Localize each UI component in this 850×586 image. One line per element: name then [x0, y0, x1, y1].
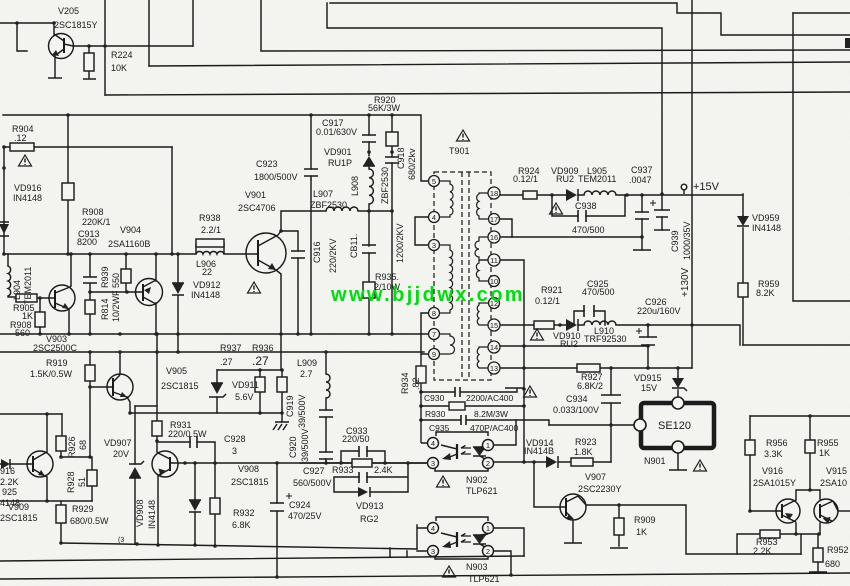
resistor R959 [738, 283, 748, 297]
wire branch C930 [421, 388, 517, 392]
svg-text:R926: R926 [67, 436, 77, 458]
wire pin15 +130V chain y325 [499, 325, 740, 345]
svg-text:IN4148: IN4148 [752, 223, 781, 233]
svg-text:R956: R956 [766, 438, 788, 448]
svg-text:470/500: 470/500 [582, 287, 615, 297]
IC SE120 box [641, 403, 714, 448]
svg-text:470P/AC400: 470P/AC400 [470, 423, 518, 433]
wire V915 collector right [838, 510, 850, 512]
svg-text:2SC1815: 2SC1815 [161, 381, 199, 391]
N903 pin 4 [428, 523, 439, 534]
svg-text:(3: (3 [118, 537, 124, 544]
capacitor C937 ground stub [633, 249, 651, 251]
svg-text:C928: C928 [224, 434, 246, 444]
wire V916 emitter down [795, 523, 797, 534]
svg-text:2SC4706: 2SC4706 [238, 203, 276, 213]
wire x178 VD912 chain [177, 254, 179, 352]
pin 18 [488, 187, 500, 199]
svg-text:2SC2500C: 2SC2500C [33, 343, 78, 353]
wire VD907 chain x135 [134, 406, 136, 544]
svg-text:2: 2 [486, 459, 490, 468]
svg-text:1800/500V: 1800/500V [254, 172, 298, 182]
wire x692 lower part [691, 325, 693, 368]
capacitor C927 [359, 472, 367, 483]
diode VD909 [566, 189, 578, 201]
wire C927/VD913 bypass [334, 463, 408, 492]
wire x392 R920/C918 chain [391, 115, 393, 334]
svg-text:10/2WF: 10/2WF [111, 290, 121, 322]
resistor R921 [534, 321, 554, 329]
svg-text:14: 14 [490, 343, 498, 352]
svg-text:2SC1815: 2SC1815 [0, 513, 38, 523]
capacitor C934 [601, 395, 621, 403]
wire y345 to right edge [743, 344, 850, 346]
svg-text:2.2K: 2.2K [0, 477, 19, 487]
wire base bracket V916 V915 [796, 490, 820, 500]
svg-text:C919: C919 [285, 395, 295, 417]
svg-text:CB11.: CB11. [349, 234, 359, 258]
pin 4 [429, 212, 440, 223]
svg-text:16: 16 [490, 233, 498, 242]
resistor R906 [35, 312, 45, 327]
svg-text:20V: 20V [113, 449, 129, 459]
svg-text:R923: R923 [575, 437, 597, 447]
svg-text:R814: R814 [100, 298, 110, 320]
svg-text:4: 4 [431, 524, 435, 533]
diode VD908 [189, 500, 201, 512]
primary winding middle [439, 245, 453, 313]
wire vertical x105 from top [104, 0, 106, 95]
svg-text:SE120: SE120 [658, 420, 691, 432]
svg-text:L907: L907 [313, 189, 333, 199]
resistor R934 [416, 366, 426, 383]
pin 16 [488, 231, 500, 243]
svg-text:1000/35V: 1000/35V [682, 221, 692, 260]
wire V905 emitter [127, 397, 130, 413]
wire V915 emitter down [819, 523, 821, 534]
diode VD925 [0, 459, 10, 469]
warning triangle N902 [437, 476, 450, 487]
ground R909 [610, 547, 628, 549]
wire y425 into SE120 pin2 [549, 424, 634, 426]
svg-text:+15V: +15V [693, 181, 720, 193]
wire R927 line y368 [524, 367, 692, 369]
N902 pin 2 [483, 458, 494, 469]
wire rail y558 [0, 556, 524, 561]
capacitor C923 [304, 169, 318, 176]
wire SE120 pin3 ground [677, 453, 679, 469]
svg-text:C930: C930 [424, 393, 445, 403]
resistor R939 [121, 269, 131, 283]
svg-text:.0047: .0047 [629, 175, 652, 185]
wire jog x390 [389, 548, 391, 557]
svg-text:22: 22 [202, 267, 212, 277]
N902 top connector wire [436, 432, 488, 436]
transistor V205 [48, 34, 74, 79]
ground R952 [809, 571, 827, 573]
svg-text:6.8K/2: 6.8K/2 [577, 381, 603, 391]
SE120 pin 3 [672, 441, 684, 453]
transistor V908 [152, 451, 178, 477]
wire pin18 output chain y195 [499, 194, 743, 196]
svg-text:VD915: VD915 [634, 373, 662, 383]
wire x326 L909/C919/C920 chain [325, 352, 327, 463]
capacitor C919 [319, 410, 333, 417]
capacitor C916 [291, 251, 305, 258]
resistor R956 [745, 440, 755, 455]
warning triangle R924 [550, 203, 563, 214]
svg-text:2SC1815Y: 2SC1815Y [54, 20, 98, 30]
wire stub left [17, 23, 27, 51]
svg-text:ZBF2530: ZBF2530 [380, 167, 390, 204]
svg-text:2200/AC400: 2200/AC400 [466, 393, 514, 403]
svg-text:925: 925 [2, 487, 17, 497]
svg-text:680/0.5W: 680/0.5W [70, 516, 109, 526]
svg-text:C937: C937 [631, 165, 653, 175]
wire C928 line y442 [157, 441, 215, 443]
SE120 pin 1 [672, 397, 684, 409]
N903 LED [473, 534, 488, 549]
svg-text:VD959: VD959 [752, 213, 780, 223]
wire main bus y115 to transformer pin5 [3, 115, 429, 181]
resistor R814 [85, 300, 95, 314]
resistor R938 parallel loop [196, 239, 224, 254]
wire V905 base [90, 386, 107, 388]
transistor V904 [136, 279, 163, 306]
wire C925 bypass loop [574, 311, 605, 325]
svg-text:560/500V: 560/500V [293, 478, 332, 488]
wire R923/VD914 line y462 [494, 461, 611, 463]
svg-text:1.8K: 1.8K [574, 447, 593, 457]
wire branch R930 [421, 405, 524, 407]
wire V909 emitter [46, 477, 48, 501]
wire x126 R939 chain [125, 254, 127, 292]
pin 11 [488, 254, 500, 266]
svg-text:3: 3 [431, 459, 435, 468]
wire C923 gap [310, 176, 312, 179]
svg-text:VD907: VD907 [104, 438, 132, 448]
wire R953 line y534 [737, 534, 818, 554]
transistor V916 [776, 499, 800, 523]
svg-text:51: 51 [77, 477, 87, 487]
wire rail y578 [0, 573, 850, 579]
N902 bottom connector wire [435, 468, 488, 471]
wire vertical x692 full [691, 0, 693, 325]
svg-text:R909: R909 [634, 515, 656, 525]
warning triangle R904 [19, 155, 32, 166]
primary winding upper [439, 181, 453, 217]
svg-text:C920: C920 [288, 436, 298, 458]
svg-text:IN4148: IN4148 [147, 500, 157, 529]
transistor V915 [814, 499, 838, 525]
svg-text:V909: V909 [8, 502, 29, 512]
warning triangle VD910 [531, 329, 544, 340]
N903 phototransistor [456, 532, 458, 547]
svg-text:5: 5 [432, 177, 436, 186]
wire x90 C913/R814 chain [89, 254, 91, 334]
wire V907 base drop x534 [534, 462, 560, 507]
resistor R924 [523, 191, 537, 199]
svg-text:TEM2011: TEM2011 [23, 267, 33, 305]
svg-text:220K/1: 220K/1 [82, 217, 111, 227]
svg-text:C935: C935 [429, 423, 450, 433]
resistor R952 [813, 548, 823, 562]
svg-text:15: 15 [490, 321, 498, 330]
wire N903 pin4/pin3 feed x417 [407, 525, 428, 557]
wire V205 collector to long rail y46 [73, 45, 193, 47]
wire pin14 y346 [499, 345, 648, 347]
ground hot chassis [273, 422, 289, 430]
svg-text:R939: R939 [100, 266, 110, 288]
svg-text:2SC1815: 2SC1815 [231, 477, 269, 487]
resistor R931 [152, 421, 162, 436]
ground SE120 pin3 [669, 469, 687, 471]
warning triangle C930 rows [524, 386, 537, 397]
wire x327 vertical and y28 line [327, 3, 662, 194]
pin 12 [489, 298, 500, 309]
resistor R908 [62, 183, 74, 200]
svg-text:560: 560 [15, 328, 30, 338]
N902 phototransistor [456, 444, 458, 459]
wire vertical x150 down from rail y46 [148, 0, 150, 66]
pin 10 [489, 276, 500, 287]
N902 pin 1 [483, 440, 494, 451]
wire V904 base [90, 291, 136, 293]
svg-text:2SA1160B: 2SA1160B [108, 239, 150, 249]
inductor L904 [8, 266, 11, 296]
svg-text:R934: R934 [400, 372, 410, 394]
capacitor C933 [359, 446, 367, 457]
N902 pin 3 [428, 458, 439, 469]
capacitor C917 [362, 135, 376, 142]
svg-text:9: 9 [432, 350, 436, 359]
pin 3 [429, 240, 440, 251]
resistor R930 [449, 402, 465, 410]
resistor R927 [577, 364, 600, 372]
svg-text:2.4K: 2.4K [374, 465, 393, 475]
capacitor C925 [584, 305, 594, 317]
wire R929 branch x61 [60, 501, 62, 543]
wire top step net x327 [330, 3, 850, 35]
svg-text:11: 11 [490, 256, 498, 265]
svg-text:VD913: VD913 [356, 501, 384, 511]
resistor R909 [614, 518, 624, 535]
svg-text:RU2: RU2 [560, 339, 578, 349]
wire N902 pin1 to rows [493, 420, 516, 445]
svg-text:IN414B: IN414B [524, 446, 554, 456]
resistor R936 [277, 377, 287, 392]
inductor L909 [326, 374, 330, 398]
N903 pin 2 [483, 546, 494, 557]
svg-text:R933: R933 [332, 465, 354, 475]
wire V908 base rail y463 [178, 462, 426, 464]
wire vertical x193 from top [192, 0, 194, 46]
svg-text:R930: R930 [425, 409, 446, 419]
wire V907 emitter [572, 520, 574, 542]
svg-text:.82: .82 [411, 377, 421, 390]
wire R909 branch [618, 505, 620, 546]
svg-text:www.bjjdwx.com: www.bjjdwx.com [330, 284, 525, 306]
svg-text:TLP621: TLP621 [466, 486, 498, 496]
wire rail y254 [4, 253, 256, 255]
wire rail y334 [0, 333, 429, 335]
wire R956 branch [749, 416, 751, 511]
svg-text:R919: R919 [46, 358, 68, 368]
svg-text:IN4148: IN4148 [13, 193, 42, 203]
svg-text:T901: T901 [449, 146, 470, 156]
svg-text:.12: .12 [14, 133, 27, 143]
svg-text:C916: C916 [312, 241, 322, 263]
svg-text:TEM2011: TEM2011 [578, 174, 616, 184]
transformer dashed frame [434, 172, 491, 380]
wire C926 branch x648 [647, 325, 649, 368]
wire left rail x421 [421, 354, 428, 443]
svg-text:C938: C938 [575, 201, 597, 211]
warning triangle N903 [443, 566, 456, 577]
svg-text:N901: N901 [644, 456, 666, 466]
wire V903 emitter [68, 309, 70, 334]
wire R933 rail continuation [300, 462, 426, 464]
primary winding lower [439, 334, 455, 354]
capacitor C928 [190, 436, 197, 448]
svg-text:68: 68 [78, 440, 88, 450]
svg-text:R929: R929 [72, 504, 94, 514]
capacitor C913 [83, 277, 97, 283]
wire y406 VD907 top [135, 405, 157, 407]
wire C938 bypass loop [552, 195, 625, 216]
pin 14 [488, 341, 500, 353]
svg-text:V905: V905 [166, 366, 187, 376]
wire transformer pin4 pin3 stubs [415, 217, 429, 245]
svg-text:R928: R928 [66, 471, 76, 493]
wire long rail y48 right half [261, 50, 850, 51]
capacitor C938 [578, 210, 586, 222]
svg-text:V907: V907 [585, 472, 606, 482]
svg-text:4: 4 [431, 439, 435, 448]
wire y211 collector line [281, 211, 392, 231]
transformer core dashed lines [462, 172, 469, 380]
svg-text:R935.: R935. [375, 272, 399, 282]
transistor V905 [107, 374, 133, 400]
svg-text:VD911: VD911 [232, 380, 259, 390]
wire N903 pin2 [493, 551, 511, 575]
svg-text:17: 17 [490, 215, 498, 224]
zener VD911 [209, 383, 226, 397]
wire C937 branch [641, 195, 643, 250]
capacitor C930 [455, 387, 460, 397]
wire R955 branch [809, 416, 811, 490]
svg-text:8.2M/3W: 8.2M/3W [474, 409, 508, 419]
svg-text:3: 3 [432, 241, 436, 250]
resistor R904 [10, 143, 34, 151]
wire pin17 stub [499, 219, 512, 237]
wire C924 branch x277 [276, 463, 278, 577]
N903 light arrows [461, 534, 471, 543]
capacitor C939 polarized [650, 200, 670, 230]
svg-text:2SA1015Y: 2SA1015Y [753, 478, 796, 488]
svg-text:L904: L904 [12, 280, 22, 300]
diode VD901 [363, 155, 375, 166]
svg-text:470/500: 470/500 [572, 225, 605, 235]
svg-text:VD916: VD916 [14, 183, 42, 193]
svg-text:+130V: +130V [680, 267, 691, 297]
capacitor C920 [319, 452, 333, 459]
svg-text:56K/3W: 56K/3W [368, 103, 401, 113]
wire V909 collector [46, 414, 48, 452]
transistor V907 [560, 494, 586, 520]
wire V916 feed [750, 510, 777, 512]
svg-text:VD901: VD901 [324, 147, 352, 157]
wire long rail y67 [149, 62, 850, 66]
transistor V901 [246, 231, 286, 274]
terminal +15V [681, 184, 687, 190]
svg-text:39/500V: 39/500V [297, 394, 307, 428]
N903 bottom connector wire [435, 556, 488, 559]
zener VD915 [672, 376, 687, 391]
wire y388 stub to x524 [505, 387, 524, 389]
resistor R923 [571, 458, 593, 466]
N903 pin 3 [428, 546, 439, 557]
wire VD911 zener drop [216, 370, 218, 413]
svg-text:V901: V901 [245, 190, 266, 200]
capacitor C918 [385, 157, 399, 163]
svg-text:.27: .27 [252, 354, 269, 368]
wire +15V drop to VD959/R959 [742, 194, 744, 345]
warning triangle V901 [248, 282, 261, 293]
wire R904 branch y147 [4, 146, 172, 148]
inductor L908 [369, 169, 373, 204]
transformer pin circles [429, 176, 501, 375]
wire y414 left [0, 413, 62, 415]
secondary winding 12-15 [477, 303, 499, 325]
svg-text:R908: R908 [82, 207, 104, 217]
N902 pin 4 [428, 438, 439, 449]
capacitor C935 [461, 415, 466, 425]
N902 LED [473, 446, 488, 461]
svg-text:1: 1 [486, 441, 490, 450]
resistor R919 [85, 365, 95, 381]
wire C934 branch x611 [610, 368, 612, 425]
wire left edge vertical x4 [3, 147, 5, 254]
svg-text:R952: R952 [827, 545, 849, 555]
svg-text:0.033/100V: 0.033/100V [553, 405, 599, 415]
wire R952 branch [817, 534, 819, 572]
svg-text:220/0.5W: 220/0.5W [168, 429, 207, 439]
svg-text:C934: C934 [566, 394, 588, 404]
svg-text:TLP621: TLP621 [468, 574, 500, 584]
wire VD915 drop to SE120 pin1 [677, 368, 679, 397]
ground V907 emitter [564, 542, 582, 544]
svg-text:V916: V916 [762, 466, 783, 476]
svg-text:C927: C927 [303, 466, 325, 476]
pin 5 [429, 176, 440, 187]
N902 light arrows [461, 446, 471, 455]
svg-text:916: 916 [0, 466, 15, 476]
svg-text:4: 4 [432, 213, 436, 222]
wire V903 collector [70, 254, 72, 286]
wire vertical x261 from top [260, 0, 262, 50]
svg-text:RU2: RU2 [556, 174, 574, 184]
wire x157 R931 chain [156, 334, 158, 442]
wire branch C935 [421, 419, 549, 421]
svg-text:2SA10: 2SA10 [820, 478, 847, 488]
wire R936/R937 top y370 [217, 369, 282, 371]
black mark right edge [845, 38, 850, 48]
secondary winding 11-10 [476, 260, 499, 281]
resistor R933 [352, 459, 372, 467]
wire pin16 y237 [499, 236, 642, 238]
svg-text:C939: C939 [670, 230, 680, 252]
